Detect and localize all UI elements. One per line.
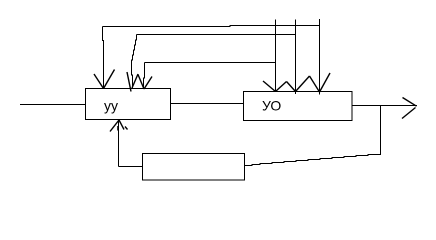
svg-text:уу: уу (104, 98, 118, 114)
svg-text:УО: УО (262, 98, 281, 114)
